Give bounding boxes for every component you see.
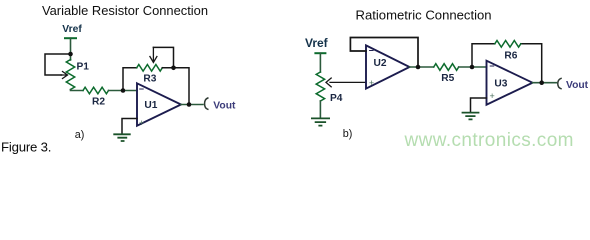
svg-text:Vref: Vref [62,24,82,35]
svg-text:R5: R5 [441,73,454,84]
svg-text:www.cntronics.com: www.cntronics.com [404,130,574,151]
svg-text:P4: P4 [330,93,343,104]
svg-text:b): b) [343,128,353,140]
svg-text:R3: R3 [143,74,156,85]
svg-text:U1: U1 [144,100,157,111]
svg-text:+: + [490,91,495,101]
svg-text:a): a) [75,129,85,141]
svg-text:−: − [369,46,374,56]
svg-text:Figure 3.: Figure 3. [1,139,51,154]
svg-text:R2: R2 [92,97,105,108]
svg-text:−: − [139,84,144,94]
svg-text:Vref: Vref [305,36,329,50]
svg-text:+: + [369,78,374,88]
svg-text:R6: R6 [504,51,517,62]
svg-text:Vout: Vout [566,80,589,91]
svg-text:U3: U3 [494,79,507,90]
svg-text:Ratiometric Connection: Ratiometric Connection [356,8,492,23]
svg-text:P1: P1 [77,62,90,73]
svg-text:U2: U2 [374,58,387,69]
svg-text:+: + [139,118,144,128]
svg-text:Vout: Vout [213,100,236,111]
svg-text:Variable Resistor Connection: Variable Resistor Connection [42,3,208,18]
svg-text:−: − [489,61,494,71]
